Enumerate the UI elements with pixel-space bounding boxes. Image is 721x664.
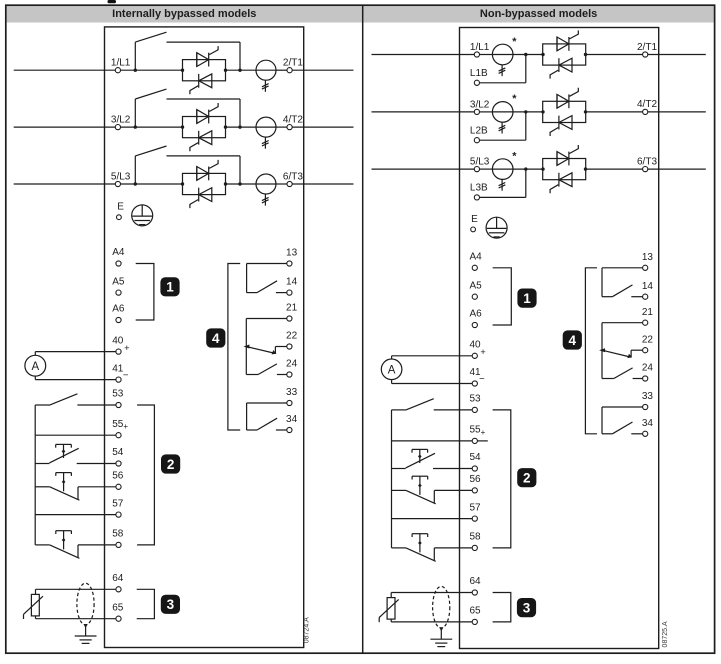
svg-text:5/L3: 5/L3: [111, 172, 131, 183]
svg-text:L3B: L3B: [470, 183, 488, 194]
svg-text:+: +: [124, 343, 129, 353]
svg-text:13: 13: [286, 248, 298, 259]
svg-text:A5: A5: [470, 280, 483, 291]
svg-text:3/L2: 3/L2: [470, 99, 490, 110]
svg-text:A: A: [31, 361, 39, 373]
svg-text:64: 64: [470, 576, 482, 587]
svg-text:22: 22: [642, 334, 654, 345]
svg-text:A: A: [388, 365, 396, 377]
svg-text:24: 24: [286, 359, 298, 370]
svg-text:+: +: [480, 347, 485, 357]
svg-text:4: 4: [569, 333, 577, 348]
svg-text:4: 4: [212, 331, 220, 346]
svg-text:33: 33: [286, 387, 298, 398]
svg-text:24: 24: [642, 363, 654, 374]
svg-text:40: 40: [470, 340, 482, 351]
svg-text:−: −: [123, 370, 129, 381]
svg-text:Non-bypassed models: Non-bypassed models: [480, 8, 597, 20]
svg-text:Internally bypassed models: Internally bypassed models: [112, 8, 256, 20]
svg-text:3: 3: [167, 597, 175, 612]
svg-text:6/T3: 6/T3: [637, 156, 657, 167]
svg-text:34: 34: [286, 414, 298, 425]
svg-text:08725.A: 08725.A: [662, 621, 669, 647]
svg-text:14: 14: [642, 281, 654, 292]
svg-text:40: 40: [112, 335, 124, 346]
svg-text:6/T3: 6/T3: [283, 171, 303, 182]
svg-text:−: −: [479, 374, 485, 385]
svg-text:13: 13: [642, 252, 654, 263]
svg-text:53: 53: [470, 394, 482, 405]
svg-text:2/T1: 2/T1: [283, 58, 303, 69]
svg-text:2: 2: [167, 457, 175, 472]
svg-text:A4: A4: [470, 252, 483, 263]
svg-text:1: 1: [166, 280, 174, 295]
svg-text:L1B: L1B: [470, 68, 488, 79]
svg-text:54: 54: [112, 447, 124, 458]
svg-text:21: 21: [642, 307, 654, 318]
svg-text:08724.A: 08724.A: [304, 617, 311, 643]
svg-text:58: 58: [470, 532, 482, 543]
svg-text:4/T2: 4/T2: [637, 99, 657, 110]
svg-text:2/T1: 2/T1: [637, 42, 657, 53]
svg-text:21: 21: [286, 303, 298, 314]
svg-text:3/L2: 3/L2: [111, 115, 131, 126]
svg-text:5/L3: 5/L3: [470, 157, 490, 168]
svg-text:22: 22: [286, 331, 298, 342]
svg-text:1: 1: [523, 291, 531, 306]
svg-text:56: 56: [470, 474, 482, 485]
svg-text:64: 64: [112, 573, 124, 584]
svg-text:58: 58: [112, 529, 124, 540]
svg-text:2: 2: [523, 471, 531, 486]
svg-text:A6: A6: [470, 309, 483, 320]
svg-text:3: 3: [523, 601, 531, 616]
svg-text:14: 14: [286, 277, 298, 288]
svg-text:57: 57: [470, 502, 482, 513]
svg-text:A6: A6: [112, 304, 125, 315]
svg-text:53: 53: [112, 389, 124, 400]
svg-text:A5: A5: [112, 276, 125, 287]
svg-text:57: 57: [112, 498, 124, 509]
svg-text:65: 65: [470, 606, 482, 617]
svg-text:E: E: [117, 201, 124, 212]
svg-text:1/L1: 1/L1: [111, 58, 131, 69]
svg-text:54: 54: [470, 452, 482, 463]
svg-text:33: 33: [642, 391, 654, 402]
svg-text:E: E: [471, 214, 478, 225]
svg-text:1/L1: 1/L1: [470, 42, 490, 53]
svg-text:L2B: L2B: [470, 125, 488, 136]
svg-text:65: 65: [112, 602, 124, 613]
svg-text:56: 56: [112, 471, 124, 482]
svg-text:A4: A4: [112, 247, 125, 258]
svg-text:34: 34: [642, 418, 654, 429]
svg-text:4/T2: 4/T2: [283, 114, 303, 125]
